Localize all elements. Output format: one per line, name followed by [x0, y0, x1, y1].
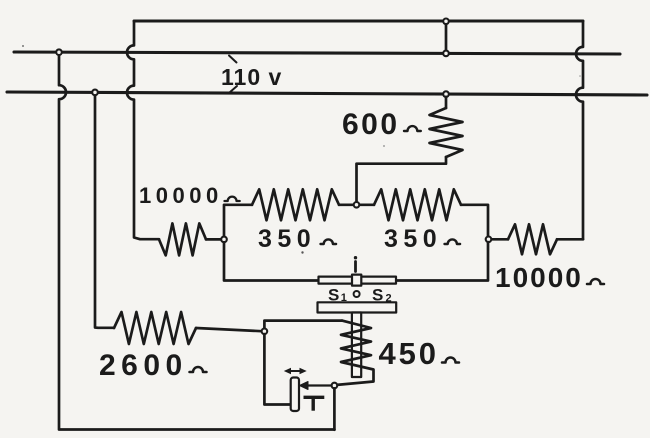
- junction node contact: [332, 383, 338, 389]
- junction node bridge mid: [354, 202, 360, 208]
- ohm symbol for 350 left: [321, 239, 337, 244]
- resistor R 10000 right: [508, 224, 557, 254]
- ohm symbol for 10000 right: [587, 279, 604, 284]
- wire node down to transmitter: [264, 334, 290, 404]
- wire 350 right down to right node: [461, 205, 488, 237]
- wire bridge left node down to contact bar: [224, 242, 319, 280]
- resistor R 10000 left: [159, 223, 206, 255]
- transmitter T plate: [291, 378, 299, 412]
- junction node bridge right: [486, 237, 492, 243]
- ohm symbol for 10000 left: [225, 197, 240, 201]
- junction node bridge left: [221, 237, 227, 243]
- wire contact bar right to bridge right node: [396, 242, 488, 280]
- svg-text:10000: 10000: [495, 262, 583, 293]
- wire 600 tap: [445, 97, 448, 108]
- resistor R 600: [430, 108, 463, 157]
- ohm symbol for 600: [404, 126, 421, 131]
- ohm symbol for 350 right: [445, 239, 461, 244]
- resistor R 350 right: [374, 189, 461, 220]
- wire 10000 right to feeder: [557, 238, 583, 241]
- wire 10000 left to node: [206, 238, 221, 241]
- junction node 600 tap on bottom rail: [443, 91, 449, 97]
- svg-text:2600: 2600: [99, 349, 188, 382]
- svg-text:110 v: 110 v: [221, 64, 282, 90]
- contact block center: [352, 275, 361, 286]
- wire 2600 to node: [196, 328, 262, 331]
- svg-text:600: 600: [342, 108, 400, 141]
- wire second drop from bottom rail to 2600: [95, 92, 114, 327]
- resistor R 350 left: [252, 189, 339, 220]
- coil spring 450: [337, 321, 374, 385]
- junction node left drop on top rail: [56, 49, 62, 55]
- ohm symbol for 2600: [190, 367, 207, 372]
- junction node on top rail: [443, 51, 449, 57]
- wire 110v supply rail bottom: [7, 92, 647, 95]
- junction node on feeder box line: [443, 19, 449, 25]
- junction node second drop on bottom rail: [92, 90, 98, 96]
- resistor R 2600: [114, 312, 196, 344]
- wire right feeder vertical (hops both rails): [576, 21, 583, 239]
- svg-text:450: 450: [379, 336, 439, 371]
- svg-text:350: 350: [384, 225, 442, 253]
- leader tick lower: [230, 86, 238, 93]
- contact bar upper S1 S2: [319, 277, 397, 284]
- svg-text:10000: 10000: [139, 183, 223, 208]
- vibration double arrow: [289, 370, 303, 372]
- contact gap circle: [354, 291, 360, 297]
- svg-text:350: 350: [258, 225, 316, 253]
- leader tick upper: [229, 56, 237, 63]
- junction node 2600: [262, 329, 268, 335]
- wire 600 bottom to bridge mid node: [357, 157, 447, 202]
- wire bridge top-left from node up: [224, 205, 252, 237]
- wire contact node down to bottom return: [333, 388, 336, 430]
- wire 2600 node up to coil: [264, 321, 342, 329]
- ohm symbol for 450: [442, 358, 459, 363]
- label T: [304, 396, 325, 399]
- wire right node to 10000 right: [491, 238, 508, 241]
- wire 110v supply rail top: [14, 52, 620, 54]
- wire between 350s: [339, 203, 374, 206]
- paper speckles: [301, 251, 303, 253]
- wire feeder tap between box and top rail: [445, 24, 448, 51]
- armature bar lower: [318, 302, 397, 312]
- label i current arrow: [354, 256, 357, 259]
- contact arrow into plate: [307, 384, 332, 386]
- wire top feeder box line: [134, 20, 583, 23]
- wire left feeder vertical (hops both rails): [127, 21, 159, 239]
- armature rod: [352, 313, 361, 378]
- wire left drop from top rail: [59, 52, 334, 429]
